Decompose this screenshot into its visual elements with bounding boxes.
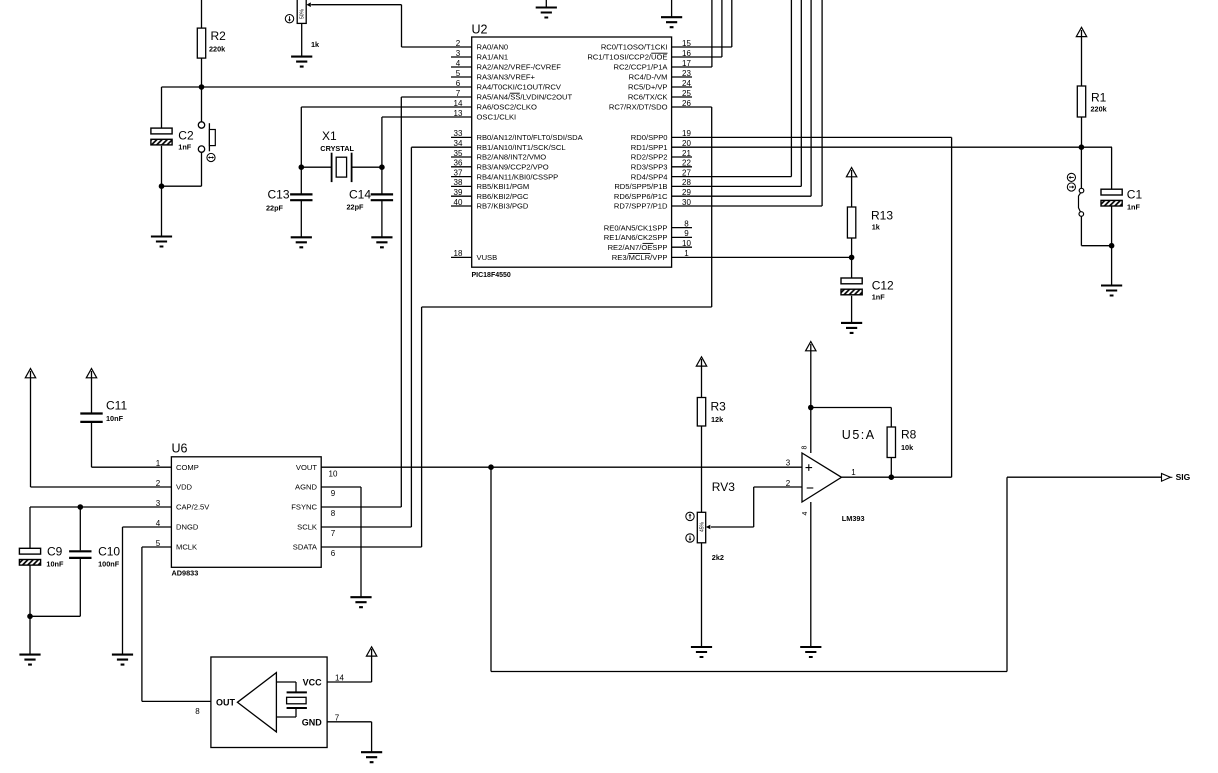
svg-text:220k: 220k (1091, 105, 1108, 114)
wire U2 pin 29 to top (672, 0, 812, 196)
resistor R3 (697, 398, 726, 427)
svg-text:RB4/AN11/KBI0/CSSPP: RB4/AN11/KBI0/CSSPP (477, 172, 559, 181)
power arrow VCC (C11) (86, 369, 96, 414)
ground (361, 752, 382, 762)
ground (291, 237, 312, 247)
U2 pin 34 RB1/AN10/INT1/SCK/SCL (454, 139, 566, 152)
U2 pin 25 RC6/TX/CK (628, 89, 692, 102)
node junction crystal left (299, 164, 305, 170)
wire (1111, 206, 1113, 285)
svg-text:2: 2 (786, 479, 791, 488)
wire RV3 wiper to comparator - input (711, 487, 802, 527)
potentiometer 1k (285, 0, 320, 49)
wire RA4 net to U2 pin 6 (162, 86, 472, 88)
wire MCLK to oscillator OUT (142, 547, 211, 701)
terminal SIG (1162, 472, 1191, 482)
U2 pin 13 OSC1/CLKI (454, 109, 517, 122)
buffer triangle (237, 673, 276, 732)
U2 pin 3 RA1/AN1 (451, 49, 508, 62)
wire (301, 23, 303, 56)
svg-text:8: 8 (684, 219, 689, 228)
wire (1081, 117, 1083, 147)
capacitor C2 (151, 128, 194, 151)
svg-text:RD7/SPP7/P1D: RD7/SPP7/P1D (614, 202, 668, 211)
svg-text:RB7/KBI3/PGD: RB7/KBI3/PGD (477, 202, 529, 211)
svg-text:RE0/AN5/CK1SPP: RE0/AN5/CK1SPP (604, 223, 668, 232)
wire U2 pin 28 to top (672, 0, 802, 186)
svg-text:CAP/2.5V: CAP/2.5V (176, 503, 210, 512)
svg-text:AGND: AGND (295, 483, 317, 492)
svg-text:RE1/AN6/CK2SPP: RE1/AN6/CK2SPP (604, 233, 668, 242)
ground (19, 655, 40, 665)
potentiometer RV3 (686, 480, 735, 562)
svg-text:RA1/AN1: RA1/AN1 (477, 53, 509, 62)
svg-text:37: 37 (454, 168, 463, 177)
svg-text:23: 23 (682, 69, 691, 78)
U2 pin 30 RD7/SPP7/P1D (614, 198, 692, 211)
wire CAP/2.5V net (30, 507, 171, 548)
svg-text:10: 10 (329, 469, 338, 478)
node junction VOUT/SIG branch (488, 464, 494, 470)
svg-text:RD2/SPP2: RD2/SPP2 (631, 153, 668, 162)
svg-text:13: 13 (454, 109, 463, 118)
U2 pin 7 RA5/AN4/SS/LVDIN/C2OUT (456, 89, 573, 102)
svg-text:4: 4 (802, 511, 809, 515)
ground (800, 647, 821, 657)
svg-text:36: 36 (454, 159, 463, 168)
svg-text:6: 6 (331, 549, 336, 558)
U2 pin 26 RC7/RX/DT/SDO (609, 99, 692, 112)
wire (890, 458, 892, 478)
U2 pin 36 RB3/AN9/CCP2/VPO (451, 159, 549, 172)
svg-text:45%: 45% (700, 521, 706, 532)
svg-text:8: 8 (802, 445, 809, 449)
wire U2 pin 19 (RD0) to comparator output (672, 137, 952, 477)
node junction C10 top (78, 504, 84, 510)
node junction C9/C10 (27, 614, 33, 620)
svg-text:RC2/CCP1/P1A: RC2/CCP1/P1A (613, 63, 668, 72)
ground (350, 597, 371, 607)
resistor R2 (197, 28, 226, 58)
svg-text:RA3/AN3/VREF+: RA3/AN3/VREF+ (477, 73, 536, 82)
svg-text:25: 25 (682, 89, 691, 98)
U2 pin 17 RC2/CCP1/P1A (613, 59, 691, 72)
svg-text:7: 7 (331, 529, 336, 538)
svg-text:22pF: 22pF (266, 204, 284, 213)
svg-text:C11: C11 (106, 399, 127, 413)
svg-text:38: 38 (454, 178, 463, 187)
ground (top, x=546) (536, 0, 557, 18)
U2 pin 4 RA2/AN2/VREF-/CVREF (451, 59, 561, 72)
U2 pin 38 RB5/KBI1/PGM (451, 178, 529, 191)
wire U2 pin 20 (RD1) to R1/C1 (672, 146, 1112, 148)
svg-text:22: 22 (682, 159, 691, 168)
svg-text:RC6/TX/CK: RC6/TX/CK (628, 93, 668, 102)
svg-text:1: 1 (851, 468, 856, 477)
wire VOUT to comparator + input (321, 466, 802, 468)
svg-text:RB2/AN8/INT2/VMO: RB2/AN8/INT2/VMO (477, 153, 547, 162)
svg-text:RD4/SPP4: RD4/SPP4 (631, 172, 668, 181)
U2 pin 39 RB6/KBI2/PGC (451, 188, 529, 201)
oscillator pin 7 GND (302, 714, 372, 753)
wire (851, 238, 853, 278)
svg-text:RC5/D+/VP: RC5/D+/VP (628, 83, 667, 92)
svg-text:18: 18 (454, 249, 463, 258)
op IC U6 AD9833 box (171, 442, 321, 578)
svg-text:10: 10 (682, 239, 691, 248)
svg-text:VDD: VDD (176, 483, 193, 492)
svg-text:1nF: 1nF (178, 143, 192, 152)
wire (161, 146, 163, 237)
svg-text:2: 2 (456, 39, 461, 48)
node junction R1/RD1 (1079, 144, 1085, 150)
crystal (inside oscillator) (276, 682, 307, 717)
node junction crystal right (379, 164, 385, 170)
overline OE (pin 10 label) (643, 242, 654, 244)
svg-text:40: 40 (454, 198, 463, 207)
svg-text:C12: C12 (872, 279, 894, 293)
svg-text:R3: R3 (711, 400, 727, 414)
ground (112, 655, 133, 665)
wire (1111, 147, 1113, 189)
U6 pin 2 VDD (156, 479, 193, 492)
U6 pin 8 FSYNC (291, 503, 336, 519)
svg-text:C1: C1 (1127, 188, 1143, 202)
svg-text:5: 5 (456, 69, 461, 78)
U2 pin 20 RD1/SPP1 (631, 139, 692, 152)
ground (1101, 286, 1122, 296)
wire U2 pin 16 to top (672, 0, 722, 57)
wire pot wiper to U2 pin 2 (311, 5, 472, 47)
svg-text:R1: R1 (1091, 91, 1107, 105)
svg-text:DNGD: DNGD (176, 523, 199, 532)
svg-text:3: 3 (456, 49, 461, 58)
wire U2 pin 14 to crystal left (301, 107, 471, 167)
push button (198, 122, 215, 162)
U2 pin 33 RB0/AN12/INT0/FLT0/SDI/SDA (451, 129, 584, 142)
svg-text:RB3/AN9/CCP2/VPO: RB3/AN9/CCP2/VPO (477, 163, 549, 172)
svg-text:RV3: RV3 (712, 480, 735, 494)
capacitor C9 (19, 545, 64, 569)
wire op-amp output (842, 476, 952, 478)
svg-text:RA4/T0CKI/C1OUT/RCV: RA4/T0CKI/C1OUT/RCV (477, 83, 562, 92)
U2 pin 23 RC4/D-/VM (629, 69, 692, 82)
svg-text:50%: 50% (300, 8, 306, 19)
svg-text:RD1/SPP1: RD1/SPP1 (631, 143, 668, 152)
power arrow VCC (VDD) (25, 369, 171, 488)
resistor R1 (1077, 86, 1107, 117)
svg-text:220k: 220k (209, 45, 226, 54)
svg-text:14: 14 (454, 99, 463, 108)
U2 pin 21 RD2/SPP2 (631, 149, 692, 162)
capacitor C13 (266, 188, 313, 213)
svg-text:10k: 10k (901, 443, 914, 452)
U2 pin 40 RB7/KBI3/PGD (451, 198, 529, 211)
svg-text:RA0/AN0: RA0/AN0 (477, 43, 509, 52)
node junction C2/button (159, 183, 165, 189)
svg-text:9: 9 (331, 489, 336, 498)
wire SIG return path (491, 467, 1161, 671)
svg-text:SCLK: SCLK (297, 523, 317, 532)
U2 pin 18 VUSB (451, 249, 497, 262)
svg-text:22pF: 22pF (346, 203, 364, 212)
svg-text:R13: R13 (871, 209, 893, 223)
svg-text:SDATA: SDATA (293, 543, 318, 552)
U2 pin 16 RC1/T1OSI/CCP2/UOE (587, 49, 691, 62)
wire SDATA to U2 pin 26 (321, 107, 712, 547)
wire AGND to ground (321, 487, 361, 597)
ground (top, x=672) (661, 0, 682, 27)
U2 pin 27 RD4/SPP4 (631, 168, 692, 181)
wire (811, 408, 892, 428)
svg-text:33: 33 (454, 129, 463, 138)
ground (291, 57, 312, 67)
wire (701, 426, 703, 512)
wire (30, 559, 80, 616)
svg-text:RA5/AN4/SS/LVDIN/C2OUT: RA5/AN4/SS/LVDIN/C2OUT (477, 93, 573, 102)
power arrow VCC (op-amp) (806, 342, 816, 454)
svg-text:14: 14 (335, 673, 344, 682)
svg-text:MCLK: MCLK (176, 543, 197, 552)
U2 pin 35 RB2/AN8/INT2/VMO (451, 149, 546, 162)
svg-text:VOUT: VOUT (296, 463, 317, 472)
node junction R8/output (889, 474, 895, 480)
svg-text:RE2/AN7/OESPP: RE2/AN7/OESPP (608, 243, 668, 252)
svg-text:1nF: 1nF (1127, 203, 1141, 212)
svg-text:R8: R8 (901, 428, 917, 442)
wire U2 pin 1 (RE3) net (672, 256, 852, 258)
capacitor C12 (841, 278, 894, 302)
op-amp U5:A LM393 (786, 428, 876, 523)
node junction switch/C1 (1109, 243, 1115, 249)
oscillator pin 14 VCC (303, 673, 372, 687)
wire U2 pin 27 to top (672, 0, 792, 177)
switch (interactive) (1067, 147, 1112, 246)
wire (300, 167, 302, 237)
power arrow VCC (R1) (1076, 27, 1086, 86)
svg-text:24: 24 (682, 79, 691, 88)
svg-text:39: 39 (454, 188, 463, 197)
op IC oscillator box (211, 657, 327, 748)
svg-text:U6: U6 (172, 442, 188, 456)
wire (162, 152, 202, 186)
svg-text:RA6/OSC2/CLKO: RA6/OSC2/CLKO (477, 103, 537, 112)
svg-text:2k2: 2k2 (712, 553, 724, 562)
svg-text:X1: X1 (322, 129, 337, 143)
resistor R13 (847, 207, 893, 238)
svg-text:8: 8 (195, 707, 200, 716)
capacitor C1 (1101, 188, 1142, 212)
U2 pin 10 RE2/AN7/OESPP (608, 239, 692, 252)
svg-text:1k: 1k (311, 40, 320, 49)
U6 pin 6 SDATA (293, 543, 336, 559)
svg-text:1k: 1k (872, 223, 881, 232)
svg-text:VCC: VCC (303, 678, 323, 688)
overline SS (pin 7 label) (510, 92, 520, 94)
svg-text:R2: R2 (211, 29, 227, 43)
U2 pin 22 RD3/SPP3 (631, 159, 692, 172)
svg-text:RB0/AN12/INT0/FLT0/SDI/SDA: RB0/AN12/INT0/FLT0/SDI/SDA (477, 133, 584, 142)
capacitor C11 (80, 399, 127, 423)
wire (701, 543, 703, 647)
U2 pin 37 RB4/AN11/KBI0/CSSPP (451, 168, 558, 181)
wire (851, 296, 853, 323)
svg-text:PIC18F4550: PIC18F4550 (472, 272, 511, 279)
svg-text:RA2/AN2/VREF-/CVREF: RA2/AN2/VREF-/CVREF (477, 63, 562, 72)
wire (29, 565, 31, 655)
wire U2 pin 17 to top (672, 0, 712, 67)
wire (161, 87, 163, 128)
svg-text:12k: 12k (711, 415, 724, 424)
svg-text:9: 9 (684, 229, 689, 238)
svg-text:35: 35 (454, 149, 463, 158)
svg-text:U2: U2 (472, 23, 488, 37)
wire DNGD to ground (123, 527, 172, 655)
svg-text:CRYSTAL: CRYSTAL (320, 144, 354, 153)
svg-text:RC4/D-/VM: RC4/D-/VM (629, 73, 668, 82)
wire (201, 0, 203, 28)
node junction R2/RA4 (199, 84, 205, 90)
svg-text:OUT: OUT (216, 698, 236, 708)
U6 pin 9 AGND (295, 483, 336, 499)
ground (151, 237, 172, 247)
svg-text:C13: C13 (267, 188, 289, 202)
svg-text:21: 21 (682, 149, 691, 158)
ground (841, 323, 862, 333)
U6 pin 7 SCLK (297, 523, 336, 539)
svg-text:C9: C9 (47, 545, 63, 559)
svg-text:RB5/KBI1/PGM: RB5/KBI1/PGM (477, 182, 530, 191)
crystal X1 (301, 129, 382, 182)
overline UOE (pin 16 label) (651, 52, 667, 54)
U2 pin 1 RE3/MCLR/VPP (612, 249, 689, 262)
U2 pin 24 RC5/D+/VP (628, 79, 692, 92)
capacitor C14 (346, 188, 393, 212)
svg-text:RC7/RX/DT/SDO: RC7/RX/DT/SDO (609, 103, 668, 112)
svg-text:RC0/T1OSO/T1CKI: RC0/T1OSO/T1CKI (601, 43, 668, 52)
U6 pin 1 COMP (156, 459, 199, 472)
svg-text:RE3/MCLR/VPP: RE3/MCLR/VPP (612, 253, 668, 262)
svg-text:RB1/AN10/INT1/SCK/SCL: RB1/AN10/INT1/SCK/SCL (477, 143, 566, 152)
svg-text:C10: C10 (98, 545, 120, 559)
svg-text:RB6/KBI2/PGC: RB6/KBI2/PGC (477, 192, 529, 201)
svg-text:4: 4 (456, 59, 461, 68)
svg-text:U5:A: U5:A (842, 428, 876, 442)
U2 pin 9 RE1/AN6/CK2SPP (604, 229, 692, 242)
wire C11 to COMP (92, 422, 172, 467)
wire U2 pin 15 to top (672, 0, 732, 47)
U2 pin 19 RD0/SPP0 (631, 129, 692, 142)
overline MCLR (pin 1 label) (628, 253, 650, 255)
U2 pin 29 RD6/SPP6/P1C (614, 188, 692, 201)
U2 pin 8 RE0/AN5/CK1SPP (604, 219, 692, 232)
U2 pin 28 RD5/SPP5/P1B (614, 178, 691, 191)
op IC U2 PIC18F4550 box (472, 23, 672, 280)
wire U2 pin 30 to top (672, 0, 823, 206)
svg-text:FSYNC: FSYNC (291, 503, 317, 512)
wire (381, 167, 383, 237)
svg-text:LM393: LM393 (842, 514, 865, 523)
svg-text:C2: C2 (178, 129, 194, 143)
U2 pin 2 RA0/AN0 (456, 39, 508, 52)
svg-text:RD5/SPP5/P1B: RD5/SPP5/P1B (614, 182, 667, 191)
svg-text:GND: GND (302, 717, 323, 727)
svg-text:6: 6 (456, 79, 461, 88)
svg-text:3: 3 (786, 459, 791, 468)
wire FSYNC to U2 pin 7 (321, 97, 472, 507)
svg-text:10nF: 10nF (46, 560, 64, 569)
U6 pin 4 DNGD (156, 519, 199, 532)
capacitor C10 (69, 545, 120, 569)
wire op-amp V- to ground (810, 502, 812, 647)
wire SCLK to U2 pin 34 (321, 147, 472, 527)
svg-text:OSC1/CLKI: OSC1/CLKI (477, 113, 517, 122)
U2 pin 14 RA6/OSC2/CLKO (454, 99, 537, 112)
svg-text:C14: C14 (349, 188, 371, 202)
U2 pin 6 RA4/T0CKI/C1OUT/RCV (456, 79, 562, 92)
svg-text:SIG: SIG (1176, 472, 1191, 482)
ground (371, 237, 392, 247)
power arrow VCC (R13) (846, 168, 856, 208)
node junction R13/C12/RE3 (849, 255, 855, 261)
U6 pin 5 MCLK (156, 539, 197, 552)
power arrow VCC (oscillator) (366, 647, 376, 682)
node junction op-amp power/R8 (808, 405, 814, 411)
U6 pin 3 CAP/2.5V (156, 499, 211, 512)
svg-text:100nF: 100nF (98, 560, 120, 569)
svg-text:AD9833: AD9833 (172, 569, 199, 578)
U6 pin 10 VOUT (296, 463, 338, 479)
svg-text:8: 8 (331, 509, 336, 518)
svg-text:RC1/T1OSI/CCP2/UOE: RC1/T1OSI/CCP2/UOE (587, 53, 667, 62)
wire (79, 507, 81, 550)
U2 pin 15 RC0/T1OSO/T1CKI (601, 39, 692, 52)
svg-text:10nF: 10nF (106, 414, 124, 423)
svg-text:VUSB: VUSB (477, 253, 498, 262)
svg-text:RD3/SPP3: RD3/SPP3 (631, 163, 668, 172)
svg-text:RD0/SPP0: RD0/SPP0 (631, 133, 668, 142)
oscillator pin 8 OUT (195, 698, 235, 716)
U2 pin 5 RA3/AN3/VREF+ (451, 69, 536, 82)
wire (201, 58, 203, 122)
svg-text:COMP: COMP (176, 463, 199, 472)
power arrow VCC (R3) (696, 357, 706, 398)
wire U2 pin 13 to crystal right (382, 117, 472, 167)
svg-text:1nF: 1nF (872, 293, 886, 302)
ground (691, 647, 712, 657)
svg-text:RD6/SPP6/P1C: RD6/SPP6/P1C (614, 192, 668, 201)
resistor R8 (887, 427, 917, 458)
